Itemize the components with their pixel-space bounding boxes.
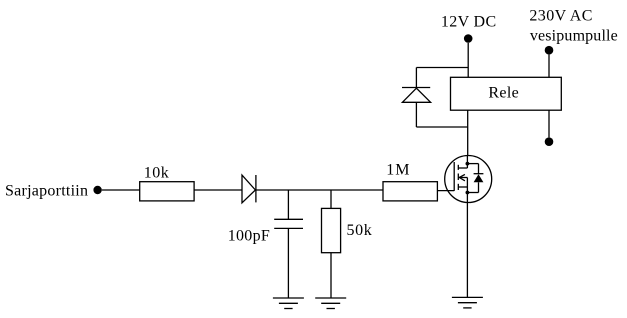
wire: [256, 189, 383, 191]
node 230V AC terminal: [545, 46, 554, 55]
diode D2 flyback: [402, 88, 431, 103]
resistor R1 10k: [140, 182, 194, 201]
wire: [415, 102, 417, 127]
wire: [287, 228, 289, 298]
resistor R3 1M: [383, 182, 437, 201]
wire: [330, 190, 332, 208]
relay K1: [451, 77, 562, 110]
wire: [416, 126, 467, 128]
ground: [273, 298, 304, 309]
capacitor C1 100pF: [274, 219, 303, 228]
svg-text:100pF: 100pF: [228, 227, 270, 244]
wire 230V: [548, 55, 550, 78]
wire: [287, 190, 289, 219]
node 12V DC terminal: [464, 34, 473, 43]
wire gate: [437, 190, 454, 192]
resistor R2 50k: [322, 208, 341, 252]
wire 12V: [467, 43, 469, 78]
transistor Q1 MOSFET: [445, 155, 492, 202]
svg-text:Sarjaporttiin: Sarjaporttiin: [5, 182, 88, 199]
wire: [416, 67, 468, 69]
wire: [194, 189, 242, 191]
svg-text:vesipumpulle: vesipumpulle: [530, 27, 618, 44]
svg-text:10k: 10k: [144, 165, 170, 182]
svg-text:50k: 50k: [347, 222, 373, 239]
wire source: [466, 203, 468, 298]
ground: [452, 297, 483, 308]
wire: [102, 189, 140, 191]
svg-text:Rele: Rele: [488, 85, 519, 102]
wire pump output: [548, 110, 550, 137]
wire drain: [467, 110, 469, 155]
diode D1: [242, 175, 256, 203]
wire: [330, 253, 332, 298]
svg-text:1M: 1M: [386, 162, 410, 179]
svg-text:12V DC: 12V DC: [441, 13, 497, 30]
node pump terminal: [545, 137, 554, 146]
svg-text:230V AC: 230V AC: [529, 7, 592, 24]
node Sarjaporttiin terminal: [93, 186, 101, 194]
wire: [415, 68, 417, 88]
ground: [315, 298, 346, 309]
